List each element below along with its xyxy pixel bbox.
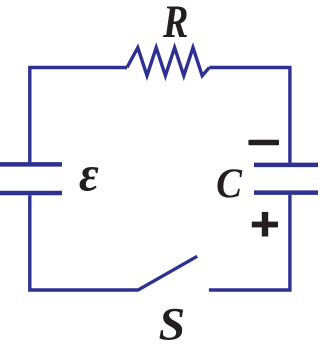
battery (EMF source) bottom plate — [0, 191, 62, 196]
wire: top wire right portion + right vertical (top half) — [209, 68, 290, 163]
plus sign (capacitor positive plate): horizontal bar — [252, 222, 278, 228]
switch S blade (open) — [138, 256, 198, 290]
battery (EMF source) top plate — [0, 162, 62, 167]
minus sign (capacitor negative plate) — [248, 140, 279, 146]
svg-text:ε: ε — [79, 146, 99, 202]
svg-text:C: C — [216, 160, 243, 207]
svg-text:S: S — [159, 299, 186, 350]
wire: left vertical (top half) + top wire left portion — [30, 68, 127, 163]
capacitor C top plate — [254, 163, 320, 168]
plus sign vertical bar — [262, 212, 268, 237]
svg-text:R: R — [162, 0, 188, 48]
resistor R1 zigzag — [127, 48, 209, 76]
wire: bottom wire left portion + left vertical (bottom half) — [30, 195, 139, 290]
wire: right vertical (bottom half) + bottom wire right portion — [209, 195, 290, 290]
capacitor C bottom plate — [254, 190, 320, 195]
